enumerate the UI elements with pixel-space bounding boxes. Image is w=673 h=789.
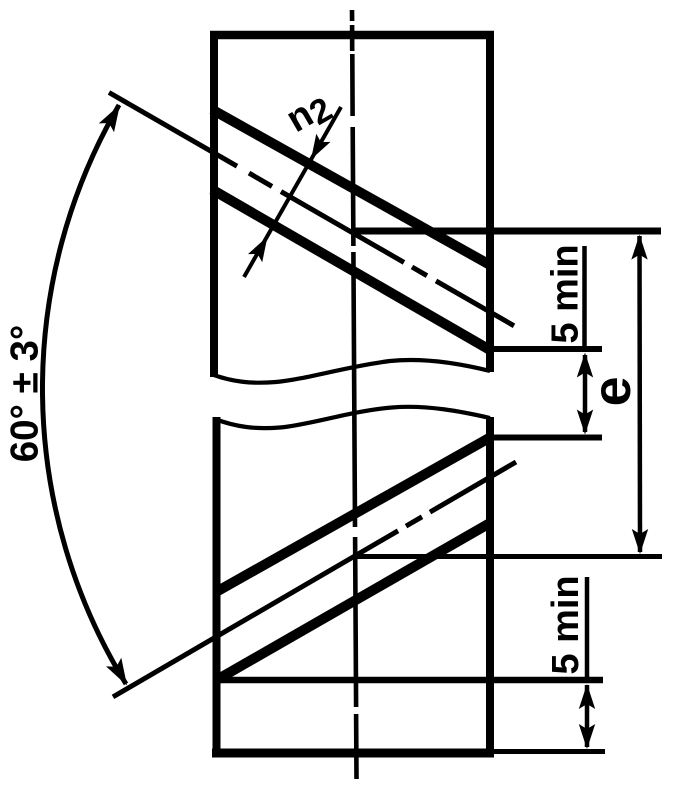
svg-text:5 min: 5 min	[545, 244, 587, 343]
5 min upper underline / leader	[582, 246, 587, 352]
label 60 deg plus-minus 3 deg	[4, 325, 47, 463]
extension line at upper plate corner	[487, 346, 602, 352]
lower plate break line (wavy)	[215, 407, 490, 428]
gap dimension double arrow (upper)	[583, 355, 588, 432]
extension line at weld axis / centerline junction (upper)	[351, 228, 661, 235]
arrowhead up at upper corner line	[577, 353, 593, 378]
bottom edge extension line	[494, 749, 605, 754]
svg-text:60° ± 3°: 60° ± 3°	[4, 325, 47, 463]
dimension line e	[637, 236, 642, 552]
label e	[582, 376, 642, 406]
svg-text:5 min: 5 min	[545, 575, 587, 674]
upper plate left edge	[210, 31, 218, 377]
arrowhead down at lower corner line	[577, 410, 593, 435]
arrowhead arc top	[99, 105, 120, 133]
svg-text:e: e	[582, 376, 642, 406]
arrowhead arc bottom	[106, 658, 127, 686]
upper bevel face line 1 (thick)	[212, 110, 491, 266]
arrowhead n2 lower	[248, 237, 268, 263]
label 5 min (upper)	[545, 244, 587, 343]
label 5 min (lower)	[545, 575, 587, 674]
upper weld axis chain line	[109, 93, 514, 326]
lower bevel face line 1 (thick)	[216, 438, 490, 593]
label n2	[279, 83, 339, 144]
arrowhead n2 upper	[311, 134, 331, 160]
upper plate break line (wavy)	[211, 360, 490, 383]
lower plate bottom edge	[212, 749, 494, 758]
lower plate root face line + extension	[217, 677, 603, 684]
lower plate right edge	[486, 417, 494, 757]
arrowhead down at bottom edge line	[579, 724, 595, 749]
lower weld axis chain line	[113, 462, 516, 697]
extension line at weld axis / centerline junction (lower)	[353, 554, 662, 559]
arrowhead up at root face line	[579, 684, 595, 709]
angle dimension arc 60 deg	[42, 105, 126, 684]
arrowhead e top	[631, 235, 647, 260]
dimension line n2	[244, 107, 341, 277]
upper plate top edge	[210, 31, 494, 40]
lower bevel face line 2 (thick)	[217, 523, 491, 680]
extension line at lower plate corner	[488, 435, 602, 441]
lower plate left edge	[213, 417, 221, 757]
arrowhead e bottom	[632, 529, 648, 554]
centerline (vertical chain line)	[352, 10, 357, 779]
upper plate right edge	[486, 31, 494, 372]
5 min lower underline / leader	[585, 577, 590, 683]
upper bevel face line 2 (thick)	[212, 190, 490, 351]
root land double arrow (lower)	[585, 685, 590, 747]
